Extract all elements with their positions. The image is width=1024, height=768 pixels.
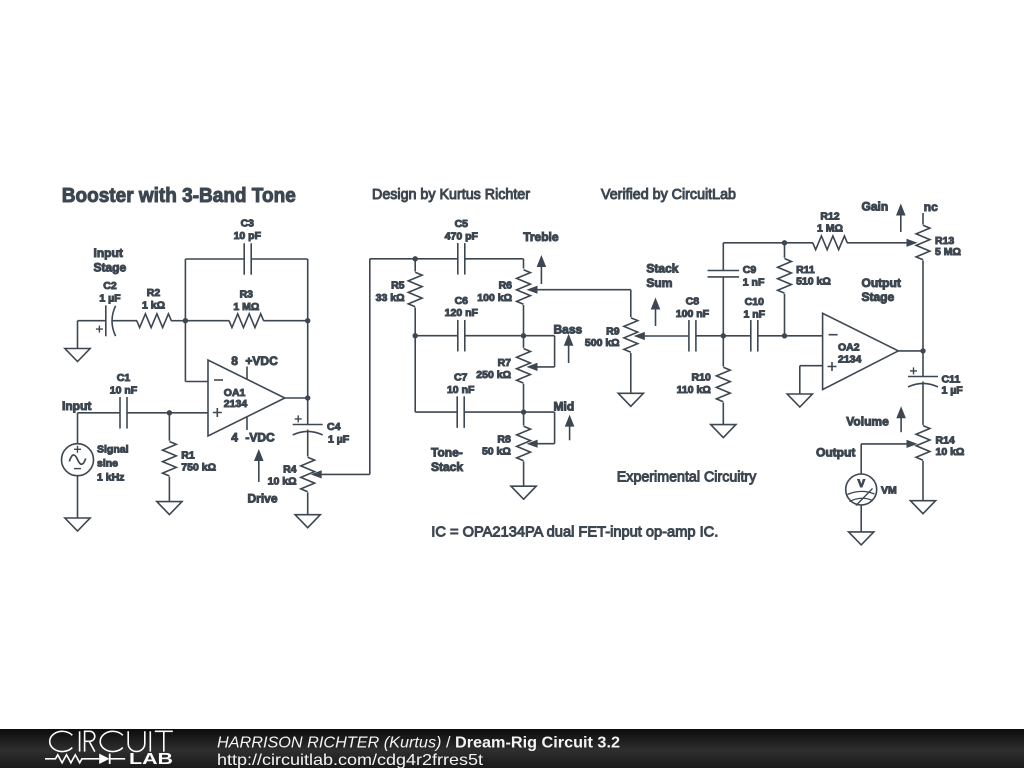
label Input (62, 399, 91, 413)
svg-text:500 kΩ: 500 kΩ (585, 337, 620, 349)
label Drive (248, 492, 278, 506)
svg-text:VM: VM (881, 485, 897, 497)
arrow Drive (254, 449, 264, 482)
svg-text:Gain: Gain (862, 199, 889, 213)
wire C6 to node G (465, 335, 524, 337)
title Booster with 3-Band Tone (62, 184, 296, 207)
capacitor C1 10nF (110, 372, 138, 429)
wire C9 up and over to node K (723, 243, 784, 271)
capacitor C5 470pF (445, 218, 479, 274)
wire R8 to ground (523, 462, 525, 487)
arrow Stack Sum (651, 298, 661, 327)
node I junction (721, 333, 726, 338)
wire feedback top right (251, 258, 308, 260)
svg-text:100 kΩ: 100 kΩ (477, 292, 512, 304)
svg-text:C11: C11 (942, 373, 961, 385)
svg-text:470 pF: 470 pF (445, 230, 479, 242)
svg-text:10 nF: 10 nF (110, 384, 138, 396)
ground G7 (R10) (711, 425, 736, 438)
arrow Treble (537, 255, 547, 284)
arrow Bass (564, 334, 574, 363)
CircuitLab logo resistor-diode squiggle (45, 754, 125, 764)
wire node D down to C4 (307, 398, 309, 425)
wire R9 to ground (630, 353, 632, 393)
svg-text:Output: Output (862, 276, 901, 290)
node C junction (167, 410, 172, 415)
node G junction (521, 333, 526, 338)
svg-text:R7: R7 (498, 357, 512, 369)
wire node J to OA2 minus (785, 335, 823, 337)
wire R10 to ground (722, 403, 724, 425)
ground G10 (VM) (849, 532, 874, 545)
svg-text:V: V (858, 478, 866, 490)
resistor R1 750k (162, 441, 216, 476)
svg-text:10 kΩ: 10 kΩ (268, 476, 297, 488)
note IC = OPA2134PA (431, 524, 718, 541)
wire node F to C6 (415, 335, 458, 337)
svg-text:5 MΩ: 5 MΩ (935, 246, 961, 258)
node B junction (305, 318, 310, 323)
svg-text:Tone-: Tone- (431, 445, 463, 459)
svg-text:1 MΩ: 1 MΩ (817, 223, 843, 235)
resistor R12 1M (813, 210, 848, 249)
node F junction (413, 333, 418, 338)
svg-text:R9: R9 (606, 326, 620, 338)
wire node F down to C7 row (415, 336, 457, 412)
note Experimental Circuitry (617, 469, 757, 486)
svg-text:100 nF: 100 nF (676, 308, 710, 320)
potentiometer R9 500k Stack Sum (585, 318, 689, 353)
svg-text:2134: 2134 (838, 354, 862, 366)
label Output Stage (862, 276, 901, 304)
svg-text:10 kΩ: 10 kΩ (936, 446, 965, 458)
svg-text:C9: C9 (743, 264, 757, 276)
wire input down to source (77, 413, 79, 444)
potentiometer R6 100k Treble (477, 270, 631, 305)
wire C2 left to ground (78, 321, 106, 349)
ground G4 (R4) (295, 515, 320, 528)
wire node I down to R10 (722, 336, 724, 367)
wire node K to R12 (785, 242, 814, 244)
svg-text:R6: R6 (499, 280, 513, 292)
svg-text:50 kΩ: 50 kΩ (482, 446, 511, 458)
svg-text:1 MΩ: 1 MΩ (233, 301, 259, 313)
svg-text:110 kΩ: 110 kΩ (677, 384, 711, 396)
svg-text:4: 4 (231, 431, 238, 445)
wire R14 to ground (922, 461, 924, 501)
svg-text:C7: C7 (454, 372, 468, 384)
svg-text:1 nF: 1 nF (743, 276, 765, 288)
ground G2 (source) (65, 518, 90, 531)
capacitor C2 (polarized 1uF) (96, 280, 121, 336)
capacitor C11 (polarized 1uF) (908, 367, 963, 396)
ground G3 (R1) (157, 502, 182, 515)
potentiometer R4 10k Drive (268, 457, 370, 492)
svg-text:C10: C10 (745, 296, 764, 308)
wire Input to C1 (78, 412, 121, 414)
node K junction (782, 240, 787, 245)
svg-text:1 µF: 1 µF (942, 385, 964, 397)
label nc (924, 200, 938, 214)
label Tone-Stack (431, 445, 463, 474)
capacitor C9 1nF (708, 264, 765, 288)
resistor R2 1k (137, 287, 172, 328)
svg-text:http://circuitlab.com/cdg4r2fr: http://circuitlab.com/cdg4r2frres5t (217, 752, 484, 768)
svg-text:R3: R3 (240, 289, 254, 301)
wire C2 to R2 (112, 320, 138, 322)
svg-text:R1: R1 (181, 449, 195, 461)
svg-text:+VDC: +VDC (245, 354, 278, 368)
wire R7 to node H (523, 384, 525, 412)
wire VM to ground (860, 505, 862, 532)
wire R4 to ground (307, 493, 309, 515)
pin 8 +VDC stub (231, 354, 278, 380)
wire node L down to C11 (922, 351, 924, 377)
arrow Mid (565, 415, 575, 441)
wire C1 to op-amp plus (127, 412, 208, 414)
svg-text:1 µF: 1 µF (328, 433, 350, 445)
svg-text:R14: R14 (936, 435, 955, 447)
svg-text:Signal: Signal (97, 444, 129, 456)
resistor R3 1M (229, 289, 264, 328)
capacitor C6 120nF (445, 295, 479, 352)
potentiometer R8 50k Mid (482, 412, 555, 461)
svg-text:OA1: OA1 (224, 387, 246, 399)
svg-text:Input: Input (62, 399, 91, 413)
svg-text:IC = OPA2134PA dual FET-input: IC = OPA2134PA dual FET-input op-amp IC. (431, 524, 718, 541)
svg-text:Booster with 3-Band Tone: Booster with 3-Band Tone (62, 184, 296, 207)
ground G8 (OA2 plus) (787, 394, 812, 407)
wire R2 to node A (171, 320, 185, 322)
wire Bass loop (524, 336, 555, 367)
svg-text:R8: R8 (497, 433, 511, 445)
wire C4 to R4 (307, 430, 309, 457)
svg-text:LAB: LAB (129, 751, 173, 768)
svg-text:sine: sine (97, 458, 118, 470)
wire OA2 output (898, 350, 923, 352)
node H junction (521, 409, 526, 414)
svg-text:10 pF: 10 pF (234, 230, 262, 242)
svg-text:750 kΩ: 750 kΩ (181, 462, 216, 474)
wire C7 to node H (464, 411, 523, 413)
svg-text:C1: C1 (117, 372, 131, 384)
node A junction (183, 318, 188, 323)
node J junction (782, 333, 787, 338)
wire node I up to C9 (722, 277, 724, 336)
svg-text:Stack: Stack (646, 262, 678, 276)
header Design by Kurtus Richter (372, 186, 530, 203)
wire feedback right vertical (307, 259, 309, 398)
node D junction (OA1 out) (305, 395, 310, 400)
wire source to ground (77, 476, 79, 518)
wire R12 to R13 wiper (847, 239, 918, 247)
wire feedback left vertical (184, 259, 186, 382)
svg-text:1 kHz: 1 kHz (97, 472, 124, 484)
svg-text:R2: R2 (147, 287, 161, 299)
svg-text:C8: C8 (686, 296, 700, 308)
svg-text:250 kΩ: 250 kΩ (476, 369, 511, 381)
svg-text:Bass: Bass (554, 323, 583, 337)
label Mid (554, 400, 575, 414)
svg-text:-VDC: -VDC (245, 431, 275, 445)
wire to OA1 minus input (185, 381, 208, 383)
wire R4 wiper up to tone stack (369, 259, 371, 475)
svg-text:2134: 2134 (224, 398, 248, 410)
ground G9 (R14) (910, 501, 935, 514)
resistor R5 33k (376, 259, 422, 307)
svg-text:Stage: Stage (862, 290, 895, 304)
op-amp OA2 2134 (823, 313, 899, 389)
svg-text:Volume: Volume (846, 414, 889, 428)
svg-text:1 µF: 1 µF (99, 292, 121, 304)
label Treble (523, 230, 559, 244)
svg-text:C4: C4 (327, 421, 341, 433)
svg-text:R4: R4 (283, 464, 297, 476)
wire R6 to node G (523, 305, 525, 336)
svg-text:1 kΩ: 1 kΩ (142, 299, 165, 311)
svg-text:C3: C3 (241, 218, 255, 230)
wire C8 to node I (696, 335, 723, 337)
ground G1 (C2 left) (65, 349, 90, 362)
svg-text:Stack: Stack (431, 460, 463, 474)
header Verified by CircuitLab (601, 186, 736, 203)
resistor R10 110k (677, 367, 731, 402)
svg-text:HARRISON RICHTER (Kurtus) / Dr: HARRISON RICHTER (Kurtus) / Dream-Rig Ci… (217, 734, 620, 751)
potentiometer R14 10k Volume (861, 426, 964, 461)
op-amp OA1 2134 (208, 360, 285, 436)
label Stack Sum (646, 262, 678, 291)
capacitor C4 (polarized 1uF) (293, 415, 350, 445)
wire C10 to node J (758, 335, 785, 337)
wire feedback top left (185, 258, 244, 260)
svg-text:Experimental Circuitry: Experimental Circuitry (617, 469, 757, 486)
svg-text:Design by Kurtus Richter: Design by Kurtus Richter (372, 186, 530, 203)
svg-text:Drive: Drive (248, 492, 278, 506)
wire C11 to R14 (922, 382, 924, 425)
svg-text:Output: Output (816, 446, 855, 460)
svg-text:R5: R5 (391, 280, 405, 292)
source V1 signal sine 1kHz (62, 444, 129, 484)
CircuitLab logo text CIRCUIT (50, 731, 173, 751)
wire output down to VM (860, 444, 862, 474)
potentiometer R7 250k Bass (476, 336, 554, 383)
node E junction (413, 256, 418, 261)
label Volume (846, 414, 889, 428)
wire node I to C10 (723, 335, 751, 337)
svg-text:R11: R11 (796, 264, 815, 276)
wire R5 to node F (414, 308, 416, 336)
svg-text:Sum: Sum (646, 276, 672, 290)
svg-text:C6: C6 (455, 295, 469, 307)
wire C5 to R6 corner (465, 259, 524, 269)
capacitor C3 10pF (234, 218, 262, 275)
capacitor C7 10nF (447, 372, 475, 428)
voltmeter VM (846, 474, 897, 506)
svg-text:Input: Input (94, 246, 123, 260)
wire OA1 output (285, 397, 308, 399)
ground G6 (R9) (618, 393, 643, 406)
svg-text:Stage: Stage (94, 261, 127, 275)
svg-text:10 nF: 10 nF (447, 384, 475, 396)
svg-text:OA2: OA2 (838, 341, 860, 353)
svg-text:nc: nc (924, 200, 938, 214)
wire R1 to ground (168, 477, 170, 502)
label Bass (554, 323, 583, 337)
pin 4 -VDC stub (231, 417, 275, 445)
svg-text:Verified by CircuitLab: Verified by CircuitLab (601, 186, 736, 203)
wire tone stack top left (370, 258, 458, 260)
svg-text:510 kΩ: 510 kΩ (796, 276, 831, 288)
wire R6 wiper to R9 corner (630, 290, 632, 317)
arrow Gain (896, 204, 906, 233)
resistor R11 510k (778, 243, 831, 336)
svg-text:R10: R10 (692, 372, 711, 384)
svg-text:1 nF: 1 nF (744, 309, 766, 321)
label Output (816, 446, 855, 460)
svg-text:R12: R12 (820, 210, 839, 222)
svg-text:Treble: Treble (523, 230, 559, 244)
label Input Stage (94, 246, 127, 275)
capacitor C10 1nF (744, 296, 766, 352)
wire Mid loop (524, 412, 555, 444)
svg-text:Mid: Mid (554, 400, 575, 414)
svg-text:120 nF: 120 nF (445, 307, 479, 319)
node L junction (OA2 out) (920, 348, 925, 353)
svg-text:C2: C2 (103, 280, 117, 292)
arrow Volume (896, 406, 906, 432)
label Gain (862, 199, 889, 213)
svg-text:C5: C5 (455, 218, 469, 230)
wire OA2 plus to ground (800, 366, 823, 394)
svg-text:8: 8 (231, 354, 238, 368)
wire node C to R1 (168, 413, 170, 441)
wire node A to R3 (185, 320, 229, 322)
capacitor C8 100nF (676, 296, 710, 352)
svg-text:33 kΩ: 33 kΩ (376, 292, 405, 304)
potentiometer R13 5M Gain (916, 213, 961, 351)
wire R3 to node B (263, 320, 307, 322)
ground G5 (tone stack) (511, 486, 536, 499)
